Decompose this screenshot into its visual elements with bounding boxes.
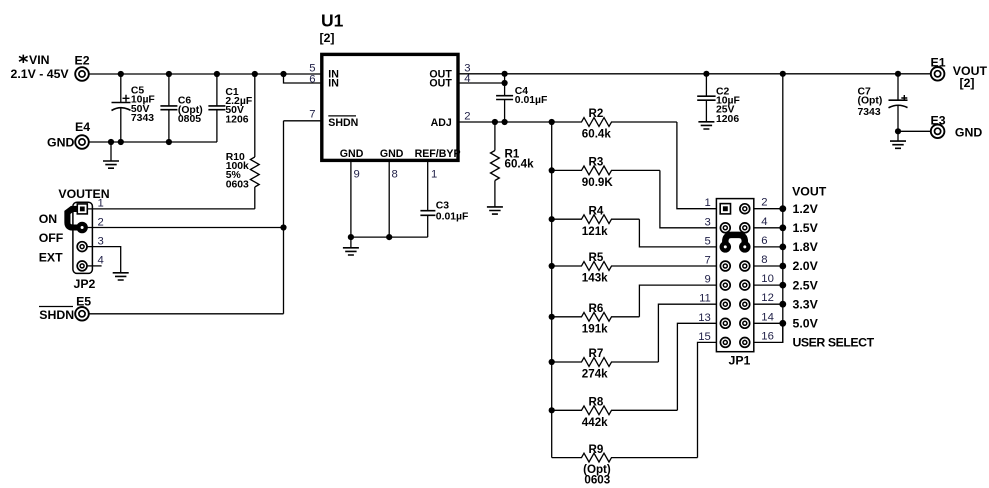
wire JP1 pin8 to bus: [754, 265, 783, 267]
svg-text:90.9K: 90.9K: [582, 176, 614, 189]
svg-text:R2: R2: [589, 107, 604, 120]
svg-text:OUT: OUT: [429, 77, 452, 89]
svg-text:2.1V - 45V: 2.1V - 45V: [11, 67, 70, 81]
wire U1 GND pin8: [388, 160, 390, 237]
svg-text:3: 3: [705, 216, 711, 228]
svg-text:0805: 0805: [178, 114, 201, 125]
junction OUT3/C4: [502, 71, 508, 77]
svg-text:2: 2: [464, 111, 470, 123]
wire JP1 pin2 to bus: [754, 208, 783, 210]
junction gnd bus/pin8: [386, 234, 392, 240]
svg-text:1.2V: 1.2V: [793, 202, 819, 216]
junction VIN/C5: [118, 71, 124, 77]
wire R7 to JP1 pin11: [658, 304, 716, 362]
capacitor C2: [697, 74, 740, 125]
JP1 pin 15 pad: [720, 338, 730, 348]
resistor R8: [552, 396, 678, 429]
capacitor C5 (polarized): [112, 74, 155, 142]
ground (R1): [487, 207, 503, 214]
svg-text:JP1: JP1: [729, 354, 751, 368]
svg-text:4: 4: [761, 216, 767, 228]
terminal E1: [931, 56, 988, 91]
svg-text:6: 6: [309, 73, 315, 85]
junction dot SHDN/JP2.2: [280, 224, 286, 230]
wire E3: [898, 130, 931, 132]
JP1 pin 5 pad: [720, 242, 730, 252]
svg-text:OFF: OFF: [39, 231, 64, 245]
svg-text:12: 12: [761, 292, 774, 304]
svg-text:R3: R3: [589, 156, 604, 169]
junction VIN/C6: [166, 71, 172, 77]
JP1 pin 11 pad: [720, 299, 730, 309]
wire SHDN vertical net: [283, 121, 285, 314]
resistor R2: [552, 107, 677, 140]
svg-text:VIN: VIN: [29, 53, 50, 67]
wire U1 GND pin9: [350, 160, 352, 237]
junction bus/R7: [549, 359, 555, 365]
svg-text:442k: 442k: [582, 416, 608, 429]
wire JP2 pin3 to ground: [87, 247, 121, 273]
ground (C7): [890, 131, 906, 148]
resistor R7: [552, 347, 659, 380]
svg-text:R4: R4: [589, 204, 604, 217]
terminal E5: [39, 295, 91, 322]
svg-text:R7: R7: [589, 347, 604, 360]
wire JP1 pin10 to bus: [754, 284, 783, 286]
JP1 pin 4 pad: [740, 223, 750, 233]
junction gnd bus/pin9: [348, 234, 354, 240]
wire pin6 jog: [284, 74, 322, 83]
svg-text:1206: 1206: [225, 114, 248, 125]
wire JP1 pin4 to bus: [754, 227, 783, 229]
svg-text:16: 16: [761, 330, 774, 342]
junction bus/2.5V: [779, 282, 786, 289]
junction bus/R3: [549, 167, 555, 173]
svg-text:C3: C3: [436, 200, 450, 211]
junction bus/2.0V: [779, 263, 786, 270]
svg-text:7343: 7343: [858, 107, 881, 118]
svg-text:0603: 0603: [226, 179, 249, 190]
wire OUT pin3 rail: [458, 73, 931, 75]
svg-text:1: 1: [431, 169, 437, 181]
resistor R1: [491, 122, 535, 207]
svg-text:11: 11: [699, 293, 711, 305]
svg-text:5: 5: [705, 235, 711, 247]
wire C4 vertical top: [504, 74, 506, 96]
wire VIN top rail: [89, 73, 322, 75]
jumper shunt JP2 1-2 (ON): [67, 209, 86, 232]
JP1 pin 10 pad: [740, 280, 750, 290]
svg-text:14: 14: [761, 311, 774, 323]
wire JP1 pin12 to bus: [754, 303, 783, 305]
junction VIN/C1: [214, 71, 220, 77]
resistor R5: [552, 251, 717, 284]
svg-text:1: 1: [705, 197, 711, 209]
junction VOUT rail/bus: [780, 71, 786, 77]
svg-text:R9: R9: [589, 443, 604, 456]
ground (JP2 pin3): [113, 273, 129, 280]
svg-text:JP2: JP2: [74, 277, 96, 291]
wire REF/BYP pin1 upper: [427, 160, 429, 210]
svg-text:5.0V: 5.0V: [793, 317, 819, 331]
svg-text:0.01µF: 0.01µF: [515, 95, 548, 106]
junction GND/ground stub: [108, 139, 114, 145]
wire JP2 pin2 to SHDN net: [87, 227, 284, 229]
resistor R3: [552, 156, 660, 189]
JP1 pin 12 pad: [740, 299, 750, 309]
svg-text:143k: 143k: [582, 272, 608, 285]
junction OUT/C7: [895, 71, 901, 77]
svg-text:GND: GND: [47, 136, 74, 150]
jumper shunt JP1 3-5/4-6: [721, 235, 750, 252]
junction bus/R2: [549, 119, 555, 125]
svg-text:13: 13: [698, 312, 711, 324]
resistor R6: [552, 302, 640, 335]
junction VIN/pin6 jog: [280, 71, 286, 77]
svg-text:7: 7: [705, 255, 711, 267]
svg-text:15: 15: [698, 331, 711, 343]
wire R9 to JP1 pin15: [698, 342, 717, 457]
JP1 pin 16 pad: [740, 338, 750, 348]
svg-text:10: 10: [761, 273, 774, 285]
resistor R10: [226, 74, 260, 209]
JP1 pin 9 pad: [720, 280, 730, 290]
terminal E3: [931, 114, 983, 140]
terminal E4: [47, 120, 90, 150]
junction ADJ/R1: [492, 119, 498, 125]
svg-text:SHDN: SHDN: [328, 117, 358, 129]
wire E5 to SHDN net: [89, 313, 284, 315]
svg-text:60.4k: 60.4k: [582, 128, 612, 141]
resistor R4: [552, 204, 640, 237]
svg-text:U1: U1: [321, 11, 344, 31]
JP1 pin 2 pad: [740, 204, 750, 214]
svg-text:R6: R6: [589, 302, 604, 315]
svg-text:121k: 121k: [582, 225, 608, 238]
junction bus/3.3V: [779, 301, 786, 308]
svg-text:0.01µF: 0.01µF: [436, 212, 469, 223]
junction bus/1.5V: [779, 224, 786, 231]
junction GND/C5: [118, 139, 124, 145]
svg-text:E4: E4: [75, 120, 90, 134]
JP1 pin 1 pad (square): [720, 204, 730, 214]
capacitor C7 (polarized): [858, 74, 908, 132]
connector JP2 body: [58, 187, 109, 291]
ground (U1): [343, 237, 359, 255]
svg-text:2: 2: [98, 216, 104, 228]
ground (C2): [698, 122, 714, 129]
svg-text:ON: ON: [39, 212, 58, 226]
svg-text:3: 3: [98, 235, 104, 247]
wire ADJ bus vertical: [551, 122, 553, 458]
svg-text:1: 1: [98, 197, 104, 209]
wire SHDN to U1: [284, 120, 322, 122]
wire R2 to JP1 pin1: [677, 122, 717, 209]
ground (input): [103, 142, 119, 168]
svg-text:6: 6: [761, 235, 767, 247]
svg-text:REF/BYP: REF/BYP: [415, 148, 461, 160]
junction bus/5.0V: [779, 320, 786, 327]
svg-text:8: 8: [761, 254, 767, 266]
svg-text:IN: IN: [328, 77, 339, 89]
svg-text:E2: E2: [75, 54, 90, 68]
svg-text:VOUT: VOUT: [792, 184, 827, 198]
node VIN label: [11, 53, 70, 81]
capacitor C6: [160, 74, 202, 142]
capacitor C4: [496, 86, 547, 122]
junction bus/1.8V: [779, 244, 786, 251]
wire JP1 pin16 to bus corner: [754, 323, 783, 342]
wire R6 to JP1 pin9: [639, 285, 716, 317]
junction VIN/R10: [252, 71, 258, 77]
junction bus/R5: [549, 263, 555, 269]
svg-text:9: 9: [354, 169, 360, 181]
junction OUT/C2: [703, 71, 709, 77]
svg-text:1206: 1206: [716, 114, 739, 125]
svg-text:7: 7: [309, 109, 315, 121]
wire R8 to JP1 pin13: [677, 323, 716, 410]
junction bus/R4: [549, 216, 555, 222]
junction ADJ/C4: [502, 119, 508, 125]
svg-text:(Opt): (Opt): [858, 96, 883, 107]
JP1 pin 7 pad: [720, 261, 730, 271]
junction OUT4/C4: [502, 80, 508, 86]
junction bus/R6: [549, 314, 555, 320]
JP1 pin 14 pad: [740, 318, 750, 328]
connector JP1 body: [716, 199, 753, 368]
wire R4 to JP1 pin5: [639, 219, 716, 247]
svg-text:1.5V: 1.5V: [793, 221, 819, 235]
JP1 pin 13 pad: [720, 318, 730, 328]
svg-text:[2]: [2]: [320, 31, 335, 45]
svg-text:R5: R5: [589, 251, 604, 264]
resistor R9: [552, 443, 698, 487]
svg-text:ADJ: ADJ: [431, 117, 452, 129]
svg-text:R8: R8: [589, 396, 604, 409]
svg-text:GND: GND: [340, 148, 364, 160]
wire JP1 pin14 to bus: [754, 322, 783, 324]
junction C7/E3: [895, 128, 901, 134]
wire OUT pin4 stub: [458, 82, 505, 84]
wire JP2 pin4 stub: [87, 265, 102, 267]
svg-text:2.5V: 2.5V: [793, 278, 819, 292]
svg-text:9: 9: [705, 274, 711, 286]
svg-text:7343: 7343: [131, 113, 154, 124]
junction bus/R8: [549, 407, 555, 413]
svg-text:1.8V: 1.8V: [793, 240, 819, 254]
svg-text:0603: 0603: [584, 473, 610, 486]
svg-text:2: 2: [761, 197, 767, 209]
junction bus/1.2V: [779, 205, 786, 212]
JP1 pin 3 pad: [720, 223, 730, 233]
wire VOUT bus vertical: [782, 74, 784, 343]
svg-text:60.4k: 60.4k: [505, 157, 535, 170]
svg-text:191k: 191k: [582, 322, 608, 335]
JP2 pin 2 pad: [77, 223, 87, 233]
junction GND/C6: [166, 139, 172, 145]
capacitor C3: [420, 200, 468, 237]
svg-text:274k: 274k: [582, 368, 608, 381]
svg-text:USER SELECT: USER SELECT: [793, 336, 875, 350]
svg-text:2.0V: 2.0V: [793, 259, 819, 273]
wire JP2 pin1 to R10: [88, 208, 255, 210]
JP2 pin 1 pad (square): [77, 204, 87, 214]
JP1 pin 6 pad: [740, 242, 750, 252]
terminal E2: [75, 54, 90, 81]
JP2 pin 3 pad: [77, 242, 87, 252]
svg-text:8: 8: [392, 169, 398, 181]
JP2 pin 4 pad: [77, 261, 87, 271]
op-amp U1 (regulator IC): [320, 11, 461, 161]
wire GND rail: [89, 141, 217, 143]
svg-text:4: 4: [98, 255, 104, 267]
JP1 pin 8 pad: [740, 261, 750, 271]
wire ADJ: [458, 121, 552, 123]
svg-text:GND: GND: [955, 126, 982, 140]
svg-text:SHDN: SHDN: [39, 308, 74, 322]
capacitor C1: [208, 74, 252, 142]
wire U1 ground bus: [351, 236, 428, 238]
svg-text:[2]: [2]: [960, 76, 975, 90]
wire JP1 pin6 to bus: [754, 246, 783, 248]
wire R3 to JP1 pin3: [660, 170, 717, 227]
svg-text:GND: GND: [380, 148, 404, 160]
svg-text:EXT: EXT: [39, 250, 63, 264]
svg-text:3.3V: 3.3V: [793, 297, 819, 311]
